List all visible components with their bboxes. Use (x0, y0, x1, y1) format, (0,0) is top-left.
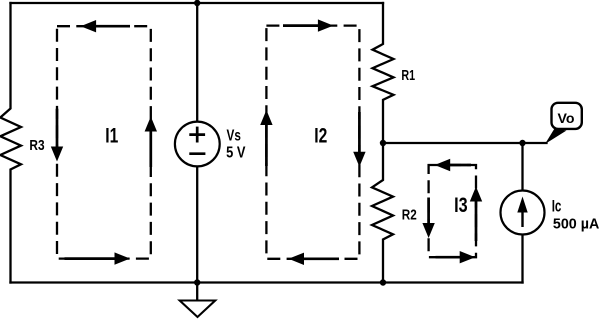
svg-text:I3: I3 (454, 193, 468, 217)
svg-text:R2: R2 (402, 207, 417, 224)
svg-text:Vo: Vo (558, 110, 575, 126)
svg-text:5 V: 5 V (226, 145, 246, 162)
svg-text:R1: R1 (401, 68, 415, 84)
svg-text:I1: I1 (105, 123, 118, 147)
svg-text:I2: I2 (314, 123, 327, 147)
svg-text:Ic: Ic (552, 198, 562, 216)
svg-text:R3: R3 (29, 137, 44, 154)
svg-text:Vs: Vs (227, 128, 241, 145)
svg-text:500 µA: 500 µA (553, 217, 600, 233)
